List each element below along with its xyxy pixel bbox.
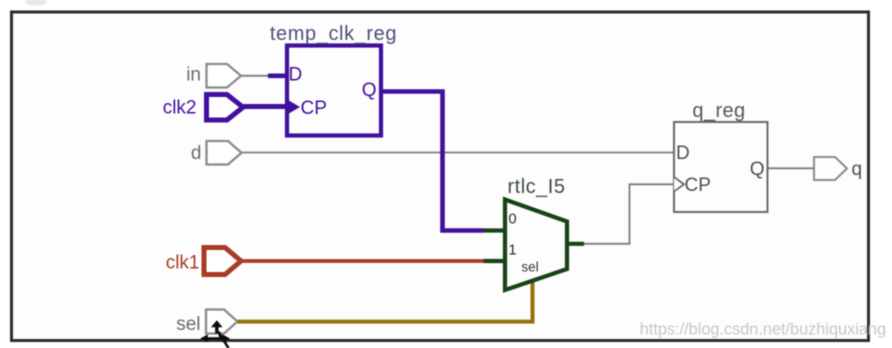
mouse cursor (move cursor with pointer): [200, 320, 230, 348]
purple stub at D pin: [268, 74, 288, 79]
svg-text:clk2: clk2: [163, 98, 197, 119]
svg-text:CP: CP: [301, 98, 327, 119]
mux input stub 0 (green): [484, 228, 508, 232]
port sel: [176, 310, 237, 336]
svg-text:0: 0: [509, 212, 517, 228]
flip-flop temp_clk_reg body: [287, 46, 381, 136]
port d: [191, 141, 242, 165]
svg-text:Q: Q: [362, 80, 377, 101]
wire mux output to q_reg CP: [583, 184, 674, 244]
svg-text:1: 1: [509, 243, 517, 259]
port q: [814, 157, 862, 180]
svg-text:rtlc_I5: rtlc_I5: [508, 176, 566, 198]
pin CP (temp_clk_reg) with clock chevron: [288, 100, 300, 114]
svg-text:q_reg: q_reg: [692, 100, 745, 122]
mux rtlc_I5 body: [505, 200, 567, 291]
svg-text:in: in: [186, 64, 201, 85]
wire sel to mux select: [238, 273, 533, 322]
mux input stub 1 (green): [484, 259, 508, 263]
svg-text:https://blog.csdn.net/buzhiqux: https://blog.csdn.net/buzhiquxiang: [640, 321, 886, 339]
port clk2: [163, 95, 243, 121]
svg-text:Q: Q: [750, 159, 765, 180]
svg-text:q: q: [852, 159, 863, 180]
wire Q to mux input 0 (purple): [381, 92, 484, 231]
svg-text:d: d: [191, 143, 202, 164]
flip-flop q_reg body: [674, 122, 768, 212]
wire q_reg Q to port q: [767, 167, 814, 169]
wire d to q_reg D: [242, 152, 675, 154]
svg-text:CP: CP: [685, 175, 711, 196]
svg-text:D: D: [289, 65, 303, 86]
mux output stub (green): [567, 242, 584, 246]
port clk1: [166, 248, 241, 275]
port in: [186, 64, 241, 88]
wire clk2 to CP: [243, 104, 288, 109]
wire in to D: [241, 75, 271, 77]
svg-text:D: D: [676, 143, 690, 164]
pin CP (q_reg) with clock chevron: [674, 177, 684, 192]
svg-text:temp_clk_reg: temp_clk_reg: [270, 23, 397, 45]
wire clk1 to mux input 1: [241, 259, 484, 263]
svg-text:sel: sel: [521, 260, 538, 275]
svg-text:clk1: clk1: [166, 253, 200, 274]
svg-text:sel: sel: [176, 314, 200, 335]
